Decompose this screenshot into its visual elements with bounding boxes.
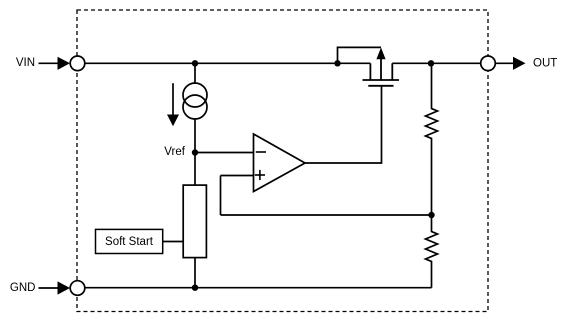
op-amp minus sign (inverting input) bbox=[256, 151, 266, 153]
wire Vref node down to reference block bbox=[194, 153, 196, 186]
junction body-tie on rail bbox=[334, 60, 340, 66]
node FB (junction dot) bbox=[428, 212, 434, 218]
junction R1 top on rail bbox=[428, 60, 434, 66]
svg-text:OUT: OUT bbox=[533, 58, 557, 70]
soft-start block bbox=[96, 229, 163, 253]
pin OUT bbox=[481, 56, 496, 71]
Q1 drain leg bbox=[391, 63, 393, 80]
wire VIN lead bbox=[39, 62, 59, 64]
pin GND bbox=[70, 281, 85, 296]
wire top rail (VIN side) bbox=[78, 62, 371, 64]
wire GND lead bbox=[39, 287, 59, 289]
wire Vref to op-amp inverting input bbox=[195, 152, 254, 154]
resistor R2 bbox=[426, 215, 438, 288]
svg-text:Soft Start: Soft Start bbox=[105, 236, 154, 248]
wire reference block to ground rail bbox=[194, 258, 196, 288]
op-amp plus sign (non-inverting input) bbox=[255, 170, 265, 180]
arrow into VIN pin bbox=[58, 57, 71, 70]
junction reference block on ground rail bbox=[192, 285, 198, 291]
arrow out of OUT pin bbox=[513, 57, 526, 70]
resistor R1 bbox=[426, 63, 438, 215]
reference / divider block bbox=[183, 185, 206, 258]
current direction arrow (down) bbox=[167, 83, 179, 126]
transistor Q1 (PMOS pass element) bbox=[363, 59, 400, 86]
wire op-amp output to gate bbox=[305, 86, 382, 163]
current source I1 (two overlapping circles) bbox=[183, 83, 207, 119]
junction current-source on rail bbox=[192, 60, 198, 66]
wire top rail (OUT side) bbox=[392, 62, 488, 64]
IC boundary (dashed) bbox=[77, 10, 488, 312]
wire current-source bottom lead to Vref node bbox=[194, 119, 196, 153]
wire feedback vertical segment bbox=[220, 176, 222, 216]
wire Soft Start to reference block bbox=[163, 241, 184, 243]
svg-text:GND: GND bbox=[10, 282, 36, 294]
Q1 gate line bbox=[368, 85, 393, 87]
wire ground rail bbox=[78, 287, 432, 289]
op-amp U1 (error amplifier) bbox=[254, 134, 306, 192]
node Vref (junction dot) bbox=[192, 149, 198, 155]
Q1 channel line bbox=[363, 79, 400, 81]
wire body tie loop to source/rail bbox=[338, 47, 382, 63]
wire op-amp non-inverting input bbox=[221, 175, 254, 177]
wire OUT lead bbox=[495, 62, 514, 64]
wire feedback horizontal to divider node bbox=[221, 214, 432, 216]
Q1 body arrow head bbox=[376, 48, 385, 60]
wire current-source top lead bbox=[194, 63, 196, 84]
Q1 source leg bbox=[369, 63, 371, 80]
pin VIN bbox=[70, 56, 85, 71]
svg-text:VIN: VIN bbox=[16, 57, 35, 69]
arrow into GND pin bbox=[58, 281, 71, 294]
Q1 body lead bbox=[380, 59, 382, 81]
svg-text:Vref: Vref bbox=[164, 146, 185, 158]
